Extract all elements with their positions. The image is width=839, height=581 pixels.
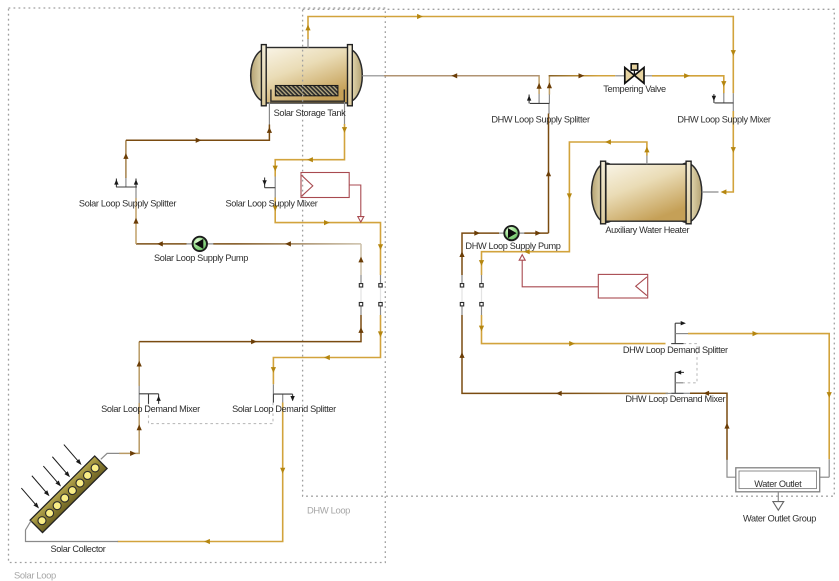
control signal wire: U2 to DHW loop [522, 260, 598, 287]
flow diverter symbol: DHW Loop Demand Splitter [674, 323, 676, 343]
node link squares: DHW hot line crossing loop boundary [481, 275, 483, 283]
wire: DHW supply splitter to tempering valve [548, 94, 550, 103]
svg-text:Solar Storage Tank: Solar Storage Tank [274, 108, 346, 118]
svg-text:Solar Loop Demand Mixer: Solar Loop Demand Mixer [101, 404, 200, 414]
wire: solar tank top outlet to DHW supply mixer (hot supply) [307, 38, 309, 48]
wire: solar supply pump line [213, 243, 361, 245]
svg-text:Auxiliary Water Heater: Auxiliary Water Heater [605, 225, 689, 235]
svg-text:Solar Loop Supply Pump: Solar Loop Supply Pump [154, 253, 248, 263]
flow mixer symbol: Solar Loop Supply Mixer [265, 187, 276, 189]
svg-text:Solar Loop Supply Splitter: Solar Loop Supply Splitter [79, 198, 176, 208]
wire: DHW demand splitter to water outlet [688, 334, 829, 460]
wire: auxiliary heater outlet loop to DHW demand splitter [646, 155, 648, 164]
dashed control link: solar demand splitter to solar demand mixer [149, 403, 274, 424]
svg-text:Solar Collector: Solar Collector [50, 544, 105, 554]
group box: DHW Loop macro boundary [303, 9, 835, 496]
pump P2: DHW Loop Supply Pump [504, 226, 518, 240]
wire: solar supply splitter to tank coil inlet [125, 178, 127, 188]
svg-text:Water Outlet: Water Outlet [754, 479, 802, 489]
wire: tank coil outlet to solar supply mixer [344, 102, 346, 125]
valve V1 actuator stem and cap [633, 70, 635, 75]
wire: DHW supply pump to DHW supply splitter [548, 103, 550, 114]
load block: Water Outlet [736, 468, 820, 492]
wire: tempering valve to DHW supply mixer [643, 75, 652, 77]
svg-text:DHW Loop Supply Mixer: DHW Loop Supply Mixer [677, 114, 771, 124]
svg-text:Solar Loop Demand Splitter: Solar Loop Demand Splitter [232, 404, 336, 414]
water outlet group connector stub and triangle [777, 492, 779, 502]
controller U2 (aquastat, DHW loop) [598, 274, 647, 298]
node link squares: DHW riser crossing loop boundary [461, 275, 463, 283]
wire: DHW pump suction line (from demand mixer riser) [524, 232, 549, 234]
flow mixer symbol: DHW Loop Supply Mixer [715, 102, 734, 104]
control signal wire: U1 to solar loop [349, 185, 361, 217]
flow diverter symbol: DHW Loop Supply Splitter [530, 102, 550, 104]
tank T1 internal coil bracket [271, 90, 344, 102]
pump P1: Solar Loop Supply Pump [193, 237, 207, 251]
wire: water outlet to DHW demand mixer [727, 459, 736, 477]
wire: solar demand mixer to solar supply pump loop [138, 342, 140, 386]
svg-text:DHW Loop Supply Pump: DHW Loop Supply Pump [465, 241, 560, 251]
wire: solar demand splitter to collector inlet [282, 394, 284, 403]
svg-text:DHW Loop Demand Mixer: DHW Loop Demand Mixer [625, 394, 725, 404]
flow diverter symbol: Solar Loop Demand Splitter [273, 393, 292, 395]
group box: Solar Loop macro boundary [9, 8, 386, 563]
svg-text:Solar Loop Supply Mixer: Solar Loop Supply Mixer [225, 198, 317, 208]
dashed control link: DHW demand splitter to DHW demand mixer [684, 344, 698, 383]
controller U1 sensor triangle [302, 175, 313, 196]
wire: solar tank side outlet to DHW supply splitter [362, 75, 384, 77]
wire: solar supply mixer to solar demand splitter [274, 188, 276, 198]
controller U2 sensor triangle [636, 277, 647, 296]
node link squares: solar hot line crossing loop boundary [380, 275, 382, 283]
svg-text:Water Outlet Group: Water Outlet Group [743, 513, 816, 523]
svg-text:Solar Loop: Solar Loop [14, 569, 56, 580]
wire: DHW demand mixer to riser (return line) [462, 315, 560, 393]
wire: collector outlet to solar demand mixer [101, 453, 120, 459]
svg-text:DHW Loop Demand Splitter: DHW Loop Demand Splitter [623, 345, 728, 355]
controller U1 (aquastat, solar loop) [301, 173, 349, 198]
valve V1: Tempering Valve (bowtie) [625, 68, 635, 84]
svg-text:DHW Loop Supply Splitter: DHW Loop Supply Splitter [491, 114, 590, 124]
sun rays hitting collector [20, 487, 41, 510]
node link squares: solar return crossing loop boundary [360, 306, 362, 315]
wire: DHW supply mixer outlet to auxiliary heater inlet [732, 93, 734, 111]
tank T1 internal heat-exchanger coil (hatched) [275, 86, 338, 96]
flow mixer symbol: Solar Loop Demand Mixer [139, 393, 158, 395]
flow mixer symbol: DHW Loop Demand Mixer [674, 372, 676, 393]
svg-text:DHW Loop: DHW Loop [307, 504, 350, 515]
wire: pump line riser to solar supply splitter [135, 198, 137, 244]
tank T1: Solar Storage Tank [251, 45, 363, 106]
svg-text:Tempering Valve: Tempering Valve [603, 84, 666, 94]
flow diverter symbol: Solar Loop Supply Splitter [116, 186, 137, 188]
solar collector panel [30, 456, 107, 533]
tank T2: Auxiliary Water Heater [592, 161, 702, 224]
